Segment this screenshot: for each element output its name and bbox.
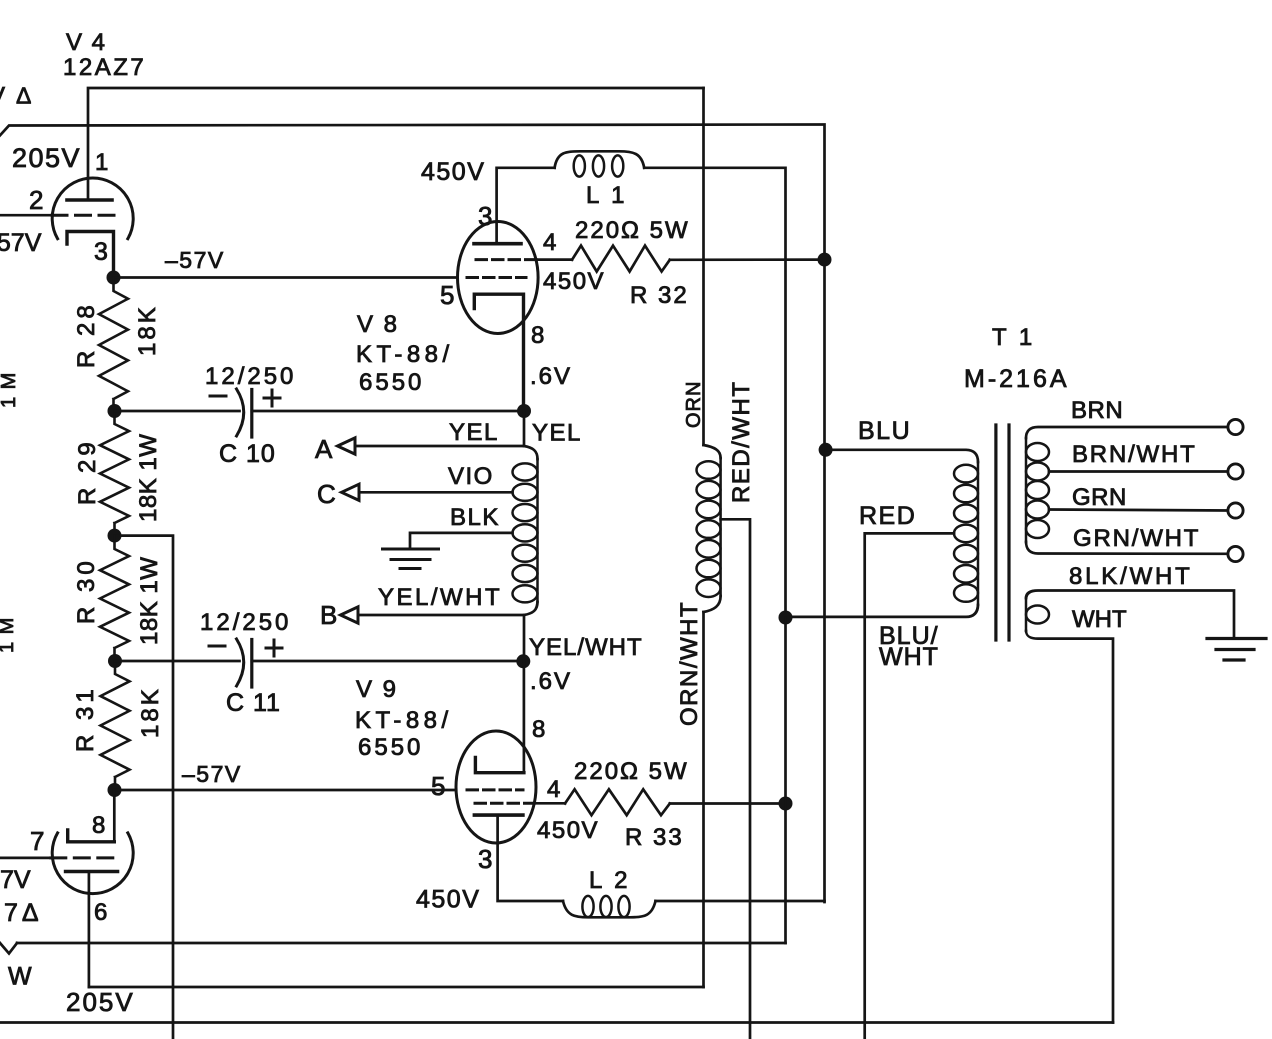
svg-text:R 32: R 32: [630, 282, 689, 309]
wire BRN secondary top: [1026, 427, 1228, 438]
svg-text:12/250: 12/250: [200, 609, 291, 636]
wire R31 junction to V4b cathode: [113, 790, 116, 842]
tube V8 cathode: [474, 294, 523, 411]
svg-text:3: 3: [94, 238, 108, 266]
wire V9 pin4 to R33: [534, 802, 565, 805]
svg-text:1 M: 1 M: [0, 617, 18, 653]
wire L2 to BLU vertical: [656, 900, 825, 903]
wire BRN/WHT tap: [1049, 470, 1228, 473]
svg-text:YEL/WHT: YEL/WHT: [529, 634, 643, 661]
arrow A wire: [352, 445, 524, 448]
wire V4b plate down to 205V rail: [88, 872, 91, 988]
svg-text:5: 5: [440, 280, 454, 310]
svg-text:KT-88/: KT-88/: [356, 341, 454, 368]
svg-text:1: 1: [95, 149, 108, 176]
label C11 polarity plus: [266, 640, 282, 656]
svg-text:Δ: Δ: [16, 83, 31, 109]
wire grid pin2 to left edge: [0, 214, 53, 217]
terminal BRN/WHT: [1228, 464, 1243, 479]
svg-text:C 10: C 10: [219, 440, 276, 468]
svg-text:450V: 450V: [537, 817, 599, 844]
wire grid pin7 to left edge: [0, 857, 52, 860]
svg-text:GRN: GRN: [1072, 484, 1127, 511]
triode V4a grid (dashed): [52, 214, 116, 217]
capacitor C10 curved plate: [237, 389, 244, 436]
svg-text:W: W: [8, 963, 32, 991]
T1 core: [994, 425, 997, 640]
label C11 polarity minus: [209, 645, 225, 648]
T1 primary loops: [954, 465, 978, 483]
wire T1 primary bottom to BLU/WHT: [786, 605, 979, 617]
svg-text:ORN/WHT: ORN/WHT: [676, 601, 703, 726]
inductor L2: [563, 901, 656, 917]
svg-text:7Δ: 7Δ: [4, 899, 43, 927]
ground (T1 secondary): [1207, 639, 1266, 661]
svg-text:6: 6: [94, 899, 107, 926]
wire YEL/WHT junction to V9 cathode: [523, 661, 526, 772]
triode V4b cathode: [68, 830, 115, 842]
svg-text:T 1: T 1: [992, 324, 1035, 351]
wire GRN tap: [1049, 510, 1228, 511]
svg-text:L 2: L 2: [589, 867, 630, 894]
wire GRN/WHT secondary bottom: [1026, 542, 1228, 554]
svg-text:BRN: BRN: [1071, 397, 1123, 424]
node R30/R31/C11 junction: [108, 654, 122, 668]
resistor R32 220 ohm: [572, 246, 670, 272]
svg-text:5: 5: [431, 771, 445, 801]
ground (BLK tap): [383, 549, 439, 569]
svg-text:RED/WHT: RED/WHT: [728, 381, 755, 503]
tube V9 screen grid (dashed): [475, 802, 534, 805]
tube V8 control grid (dashed): [467, 276, 526, 279]
svg-text:18K 1W: 18K 1W: [136, 557, 163, 645]
triode V4a plate: [67, 198, 112, 202]
tube V9 control grid (dashed): [467, 788, 523, 791]
svg-text:VIO: VIO: [448, 463, 494, 490]
wire rail (feedback) to RED/WHT vertical: [17, 942, 786, 945]
inductor L1: [555, 151, 645, 168]
arrow C wire: [356, 491, 513, 494]
arrow A head: [338, 438, 356, 454]
node BLU junction: [819, 443, 833, 457]
svg-text:450V: 450V: [421, 158, 485, 186]
triode V4b plate: [66, 870, 118, 874]
wire 450V rail to BLU vertical (with left-edge jog): [0, 125, 825, 903]
tube V8 screen grid (dashed): [476, 258, 536, 261]
terminal BRN: [1228, 419, 1243, 434]
svg-text:A: A: [315, 434, 333, 464]
svg-text:3: 3: [478, 844, 492, 874]
svg-text:B: B: [320, 600, 337, 630]
wire BLK/WHT winding to ground: [1026, 591, 1234, 639]
node YEL junction: [517, 404, 531, 418]
svg-text:220Ω 5W: 220Ω 5W: [575, 217, 690, 244]
triode V4a envelope: [52, 178, 133, 239]
wire feedback tap down to bottom edge: [115, 536, 174, 1039]
svg-text:BLK: BLK: [450, 504, 500, 531]
svg-text:.6V: .6V: [530, 668, 572, 695]
svg-text:12/250: 12/250: [205, 363, 296, 390]
svg-text:18K 1W: 18K 1W: [135, 434, 162, 522]
svg-text:7: 7: [30, 826, 44, 856]
svg-text:450V: 450V: [543, 268, 605, 295]
arrow C head: [342, 484, 360, 500]
wire V9 plate to L2: [498, 815, 563, 901]
svg-text:WHT: WHT: [879, 643, 939, 671]
wire V8 plate to L1: [497, 168, 555, 244]
wire R28 junction to C10: [115, 410, 240, 413]
wire R32 to BLU vertical: [670, 258, 825, 261]
capacitor C11 straight plate: [250, 640, 253, 688]
resistor R29 18K 1W: [100, 411, 129, 536]
svg-text:18K: 18K: [134, 304, 161, 356]
svg-text:2: 2: [29, 185, 43, 215]
svg-text:M-216A: M-216A: [964, 365, 1070, 393]
wire L1 to RED/WHT vertical: [644, 168, 785, 618]
ORN winding bottom curve: [704, 596, 721, 612]
tube V8 envelope: [458, 222, 539, 334]
triode V4b grid (dashed): [51, 856, 116, 859]
capacitor C11 curved plate: [237, 639, 244, 686]
wire BLK tap to ground: [410, 533, 513, 549]
svg-text:WHT: WHT: [1072, 606, 1127, 633]
svg-text:8: 8: [92, 812, 105, 839]
svg-text:R 28: R 28: [73, 301, 100, 368]
svg-text:ORN: ORN: [683, 381, 705, 428]
arrow B wire: [355, 614, 524, 617]
svg-text:R 29: R 29: [74, 438, 101, 505]
wire R30 junction to C11: [115, 660, 240, 663]
node BLU/WHT junction: [779, 611, 793, 625]
wire RED/WHT centre tap down to bottom edge: [721, 519, 750, 1039]
node -57V junction: [107, 271, 121, 285]
svg-text:1 M: 1 M: [0, 372, 20, 408]
wire BLU to T1 primary top: [826, 450, 978, 462]
T1 lower secondary loop: [1026, 606, 1049, 624]
svg-text:–57V: –57V: [182, 761, 242, 787]
svg-text:YEL: YEL: [449, 419, 499, 446]
svg-text:V 4: V 4: [66, 29, 107, 56]
label C10 polarity minus: [210, 395, 226, 398]
feedback winding loops: [513, 463, 538, 480]
triode V4a cathode: [67, 232, 114, 279]
svg-text:V 8: V 8: [357, 311, 399, 338]
svg-text:L 1: L 1: [586, 182, 627, 209]
svg-text:8LK/WHT: 8LK/WHT: [1069, 563, 1193, 590]
wire rail from V4 pin1 to ORN winding (top): [88, 88, 704, 200]
resistor R30 18K 1W: [100, 536, 129, 661]
svg-text:RED: RED: [859, 502, 916, 530]
svg-text:220Ω 5W: 220Ω 5W: [574, 758, 689, 785]
svg-text:6550: 6550: [359, 369, 424, 396]
tube V9 plate: [474, 813, 523, 817]
svg-text:YEL: YEL: [532, 420, 582, 447]
node R29/R30 junction (feedback tap): [108, 529, 122, 543]
terminal GRN/WHT: [1228, 546, 1243, 561]
node YEL/WHT junction: [516, 654, 530, 668]
svg-text:V 9: V 9: [356, 676, 398, 703]
ORN winding top curve: [704, 445, 721, 458]
svg-text:R 33: R 33: [625, 824, 684, 851]
tube V9 cathode: [475, 758, 524, 773]
svg-text:450V: 450V: [416, 886, 480, 914]
terminal GRN: [1228, 503, 1243, 518]
svg-text:GRN/WHT: GRN/WHT: [1073, 525, 1200, 552]
wire V8 pin4 to R32: [536, 258, 572, 261]
resistor R28 18K: [99, 278, 128, 412]
node R31 bottom junction: [108, 783, 122, 797]
svg-text:.6V: .6V: [530, 363, 572, 390]
wire 205V rail: [89, 986, 704, 989]
node R28/R29/C10 junction: [108, 404, 122, 418]
svg-text:C: C: [317, 479, 336, 509]
wire ORN/WHT down to 205V rail: [702, 612, 705, 987]
wire C10 to YEL junction: [252, 410, 524, 413]
svg-text:V: V: [0, 83, 5, 110]
label C10 polarity plus: [264, 390, 280, 406]
resistor W tail (cut at left edge): [0, 936, 17, 954]
svg-text:R 30: R 30: [73, 557, 100, 624]
svg-text:–57V: –57V: [165, 247, 225, 273]
wire -57V to V8 grid: [114, 276, 458, 279]
svg-text:18K: 18K: [137, 686, 164, 738]
wire bottom rail to WHT: [0, 1021, 1113, 1024]
winding top curve (YEL): [524, 446, 538, 459]
arrow B head: [341, 607, 359, 623]
tube V8 plate: [474, 242, 521, 246]
resistor R31 18K: [101, 661, 130, 790]
tube V9 envelope: [456, 731, 536, 843]
node R32/BLU junction: [818, 253, 832, 267]
svg-text:205V: 205V: [12, 143, 81, 173]
svg-text:12AZ7: 12AZ7: [63, 54, 146, 81]
wire -57V to V9 grid: [115, 789, 457, 792]
svg-text:4: 4: [543, 229, 556, 256]
wire RED/WHT vertical bottom segment: [784, 618, 787, 944]
wire C11 to YEL/WHT junction: [252, 660, 524, 663]
wire ORN from top rail: [702, 88, 705, 445]
svg-text:7V: 7V: [0, 866, 31, 894]
ORN winding loops: [697, 461, 721, 479]
wire R33 to RED/WHT vertical: [670, 802, 786, 805]
svg-text:205V: 205V: [66, 987, 135, 1017]
svg-text:8: 8: [531, 322, 544, 349]
triode V4b envelope: [52, 833, 133, 894]
svg-text:6550: 6550: [358, 734, 423, 761]
svg-text:R 31: R 31: [72, 685, 99, 752]
capacitor C10 straight plate: [250, 390, 253, 438]
wire WHT to bottom rail: [1026, 631, 1113, 1023]
node R33/RED-WHT junction: [779, 797, 793, 811]
svg-text:KT-88/: KT-88/: [355, 707, 453, 734]
svg-text:C 11: C 11: [226, 689, 281, 717]
svg-text:BRN/WHT: BRN/WHT: [1072, 441, 1197, 468]
T1 secondary loops: [1026, 443, 1049, 461]
wire YEL junction down to winding: [523, 411, 526, 446]
wire RED centre tap down to bottom edge: [865, 533, 954, 1039]
svg-text:BLU: BLU: [858, 417, 911, 445]
svg-text:YEL/WHT: YEL/WHT: [378, 584, 502, 611]
winding bottom curve (YEL/WHT): [524, 602, 538, 661]
resistor R33 220 ohm: [565, 789, 670, 815]
svg-text:4: 4: [547, 776, 560, 803]
svg-text:–57V: –57V: [0, 229, 42, 257]
svg-text:8: 8: [532, 716, 545, 743]
